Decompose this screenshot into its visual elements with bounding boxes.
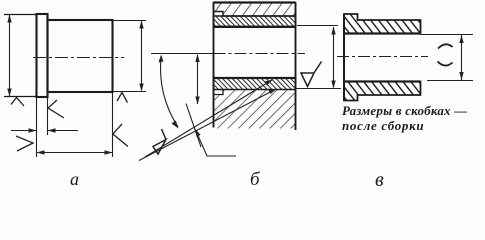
arc arrow bottom [172,121,179,129]
roughness tick on flange OD [11,98,24,107]
arrow right [29,128,37,132]
arrow right [105,150,113,154]
roughness tick on flange left face [16,136,33,151]
vertical dim at 197 [197,55,199,104]
arrow up [139,21,143,29]
joint leader line 2 [139,89,276,161]
housing top edge thick [214,1,296,3]
svg-text:в: в [375,169,384,191]
extension line bottom [427,80,473,82]
extension line flange right below [47,93,49,135]
dimension line body OD [141,21,143,91]
housing left face [213,3,215,128]
arrow down [331,81,335,89]
roughness triangle left [153,129,166,154]
extension line right top [297,25,338,27]
roughness tick on body end face [113,124,128,147]
arrow down [459,72,463,80]
svg-text:б: б [250,169,261,190]
centerline extension left [151,53,214,55]
dimension line flange OD [9,15,11,96]
arc arrow top [159,55,164,63]
flange outline [37,14,48,97]
centerline [214,53,306,55]
extension line top-left [4,14,36,16]
step edge bottom-left [214,90,224,95]
extension line right bottom [296,88,342,90]
bore bottom line [214,77,296,79]
dim line right [333,27,335,88]
bottom wall hatched [344,82,421,101]
steep leader line [186,104,201,148]
svg-text:а: а [70,169,79,189]
arrow up [331,27,335,35]
roughness tick on body OD right [117,93,128,103]
svg-text:Размеры в скобках —: Размеры в скобках — [342,103,467,118]
centerline [337,56,428,58]
bushing top wall hatched [214,16,296,27]
arrow down [139,84,143,92]
flange thickness dim left tail [11,130,36,132]
parenthesis upper (rotated) [438,44,453,48]
dim line [461,35,463,80]
roughness tick on flange face [48,100,64,118]
bent leader arrow [195,129,201,137]
bent leader with shelf [196,131,236,156]
housing right face [295,3,297,131]
angle dimension arc [160,57,178,127]
svg-text:после сборки: после сборки [342,118,424,133]
extension line bottom-left [4,96,36,98]
extension line top-right [113,20,146,22]
top wall hatched [344,14,421,34]
arrow down [7,89,11,97]
housing bottom block hatched [214,90,296,129]
bore top line [214,26,296,28]
roughness triangle right [301,62,322,87]
parenthesis lower (rotated) [438,62,453,66]
arrow left [37,150,45,154]
arrow up [195,54,199,62]
extension line top [421,34,474,36]
body outline [48,20,113,92]
flange thickness dim right tail [48,130,78,132]
arrow down [195,97,199,105]
centerline [33,57,124,59]
bushing bottom wall hatched [214,78,296,90]
bore bottom line [344,80,421,82]
extension line flange left below [36,98,38,157]
bore top line [344,32,421,34]
arrow up [7,15,11,23]
arrow up [459,35,463,43]
extension line bottom-right [113,91,146,93]
housing top band hatched [214,3,296,17]
overall length dim [37,152,113,154]
arrow left [48,128,56,132]
extension line body right below [112,93,114,157]
flange left face [343,14,345,101]
joint leader line 1 [145,80,272,157]
